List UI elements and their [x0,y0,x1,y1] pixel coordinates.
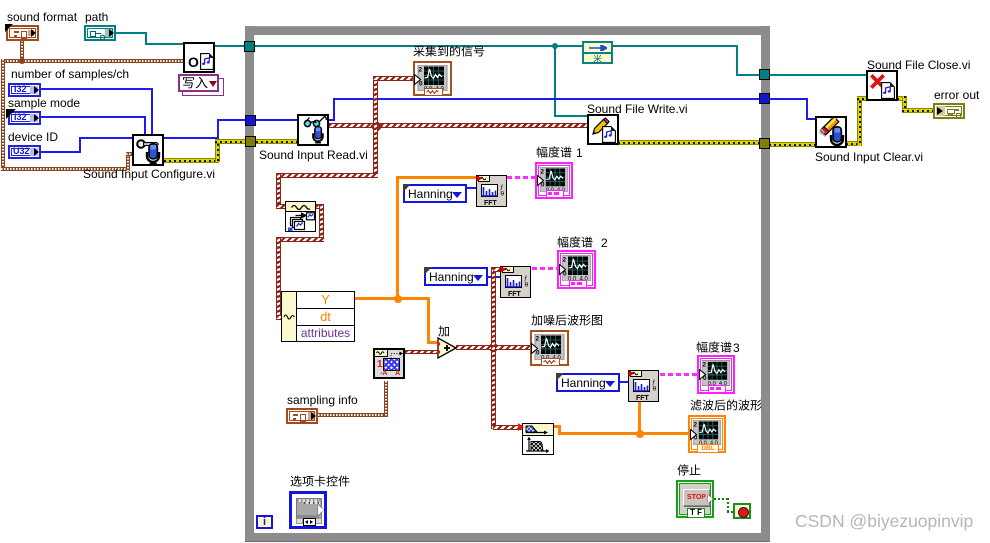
express convert from dynamic data [285,201,316,232]
VI Sound File Open [183,42,215,73]
wire: pink FFT2 to spectrum2 [532,267,557,270]
tunnel blue right [759,93,770,104]
FFT 2 [500,266,531,298]
wire: blue number of samples to Configure [41,88,153,90]
wire: waveform trunk to convert icon [276,173,378,178]
tunnel olive left [245,136,256,147]
wire: blue task id Configure to left tunnel [164,137,219,139]
wire: error tunnel to Sound Input Read [256,139,298,144]
label sample mode [8,96,80,110]
tunnel olive right [759,138,770,149]
junction dot teal [552,43,558,49]
wire: blue Hanning2 to FFT2 [487,276,501,278]
wire: orange up to FFT1 [396,176,399,300]
wire: blue sample mode to Configure [41,116,146,118]
label 选项卡控件 [290,475,350,489]
terminal path [84,25,116,41]
wire: blue device ID to Configure [41,151,81,153]
label error out [934,88,979,102]
chart acquired signal 采集到的信号 [413,61,452,96]
label 采集到的信号 [413,45,485,59]
label Sound File Write.vi [587,102,687,116]
wire: error Configure to left tunnel [164,158,219,163]
terminal sampling info cluster [286,408,318,424]
wire: error Close to error out [897,96,906,101]
label sound format [7,10,77,24]
tab control terminal [289,491,327,529]
label Sound Input Read.vi [259,148,368,162]
tunnel teal right [759,69,770,80]
wire: orange down to add [427,297,430,343]
wire: waveform convert out zigzag to GWC [316,204,324,209]
label sampling info [287,393,358,407]
terminal sound format [6,25,39,41]
wire: cluster horizontal to Sound File Open [1,59,185,63]
watermark CSDN [795,511,973,532]
wire: add out to noisy chart [456,345,531,350]
icon wait-mi [582,41,613,64]
VI Sound File Write [587,114,619,145]
terminal I32 sample mode [8,111,41,125]
wire: error Sound File Write to right tunnel [618,140,762,145]
wire: orange filter out to filtered chart [554,425,561,428]
label device ID [8,130,58,144]
junction waveform X crossing [370,120,383,133]
Hanning enum 2 [424,267,488,286]
iteration terminal i [256,515,273,529]
wire: waveform vertical add junction to FFT2 and filter [491,267,496,429]
wire: blue task id Read to right tunnel [329,119,335,121]
wire: pink FFT3 to spectrum3 [660,373,697,376]
FFT 3 [628,370,659,402]
wire: blue Hanning3 to FFT3 [620,381,629,383]
wire: cluster sound format down [20,40,24,62]
chart spectrum3 幅度谱3 [697,355,735,394]
label 停止 [677,464,701,478]
wire: path teal from path terminal to Sound File Open [116,32,147,34]
wire: waveform trunk vertical [373,79,378,178]
wire: orange Y out [355,297,430,300]
chart spectrum1 幅度谱1 [535,162,573,199]
filter express [522,423,554,455]
terminal error out [933,103,965,119]
VI Sound Input Clear [815,116,847,148]
noise generator [373,348,405,379]
get waveform components [281,291,355,342]
wire: green stop to condition [714,498,730,500]
wire: teal outside loop to Sound File Close [769,74,867,76]
label 滤波后的波形 [690,399,762,413]
label 加 [438,325,450,339]
wire: orange up to FFT3 [638,401,641,434]
wire: teal branch down to Sound File Write [554,45,556,117]
wire: pink FFT1 to spectrum1 [507,176,535,179]
terminal I32 number of samples [8,83,41,97]
junction cluster [19,58,25,64]
wire: teal right segment down to right tunnel [736,45,738,76]
VI Sound File Close [866,70,898,101]
wire: teal refnum inside loop horizontal [254,45,738,47]
while loop frame right bar [761,26,770,542]
add node 加 [437,337,457,359]
loop condition terminal [733,503,751,519]
junction dot orange Y [394,295,402,303]
VI Sound Input Read [297,114,329,146]
label Sound Input Clear.vi [815,150,923,164]
label Sound Input Configure.vi [83,167,215,181]
wire: error Clear up to Sound File Close [846,141,860,146]
while loop frame left bar [245,26,254,542]
junction dot orange filter [636,430,644,438]
wire: teal refnum Open to left tunnel [215,45,246,47]
wire: waveform to acquired chart [373,76,414,81]
chart spectrum2 幅度谱 2 [557,250,596,289]
tunnel blue left [245,115,256,126]
wire: noise to add [405,350,438,354]
Hanning enum 3 [556,373,620,392]
wire: blue outside loop to Sound Input Clear [769,98,808,100]
VI Sound Input Configure [132,134,164,166]
wire: error outside to Sound Input Clear [769,142,816,147]
while loop frame bottom bar [245,533,770,542]
enum write mode 写入 [178,74,223,95]
while loop frame top bar [245,26,770,35]
wire: cluster bottom to Configure [1,167,130,171]
wire: cluster left edge down [1,59,5,171]
terminal U32 device ID [8,145,41,159]
label 幅度谱3 [696,341,740,355]
FFT 1 [476,175,507,207]
label 加噪后波形图 [531,314,603,328]
wire: waveform Read to Write [329,123,588,128]
wire: blue Hanning1 to FFT1 [467,187,477,189]
stop button terminal [676,480,714,518]
label number of samples/ch [11,67,129,81]
label 幅度谱 2 [557,236,608,250]
wire: cluster sampling info to noise [318,413,388,417]
chart noisy waveform 加噪后波形图 [530,330,569,366]
label path [85,10,108,24]
wire: blue tunnel to Sound Input Read [256,119,298,121]
Hanning enum 1 [403,184,467,203]
tunnel teal left [244,41,255,52]
label Sound File Close.vi [867,58,970,72]
chart filtered waveform 滤波后的波形 [688,415,726,453]
label 幅度谱 1 [536,146,583,160]
